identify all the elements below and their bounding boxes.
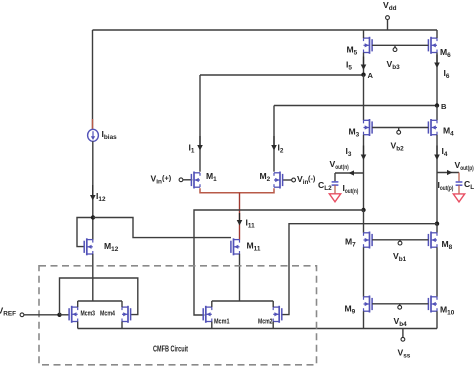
node B (435, 103, 439, 107)
transistor M7 (364, 232, 373, 249)
wire gate bar M5-M6 (372, 44, 428, 46)
label Vdd (383, 0, 397, 12)
label Iout(n) (343, 183, 359, 195)
node Vout(n) (361, 208, 365, 212)
terminal Vb3 (393, 45, 397, 51)
current arrow I6 (434, 55, 440, 69)
transistor M2 (274, 172, 283, 189)
label M11 (247, 241, 261, 253)
capacitor C_L2 (332, 182, 339, 185)
wire M6 to node B (436, 53, 438, 106)
transistor M1 (191, 172, 200, 189)
transistor Mcm2 (273, 306, 282, 323)
wire M6 drain stub (436, 30, 438, 38)
svg-text:Mcm2: Mcm2 (258, 319, 273, 326)
transistor M8 (428, 232, 437, 249)
wire Mcm1-2 drain bar (212, 301, 273, 307)
label A (368, 71, 374, 80)
terminal Vb4 (398, 304, 402, 309)
svg-text:(+): (+) (162, 174, 172, 183)
label I1 (189, 143, 195, 155)
current arrow I4 (434, 146, 440, 161)
ground C_L1 (453, 194, 464, 202)
current source Ibias (88, 129, 99, 141)
terminal Vin+ (179, 178, 192, 182)
transistor M5 (364, 37, 373, 54)
label M8 (442, 239, 453, 251)
label I2 (278, 143, 284, 155)
node Vref junction (57, 313, 61, 317)
label Vb1 (393, 251, 407, 263)
wire Vref loop to Mcm4 gate (60, 278, 138, 315)
wire bottom rail (78, 328, 437, 330)
wire M9 source (363, 311, 365, 328)
wire Vout(n) branch (335, 172, 364, 174)
wire Vout(p) to CMFB (281, 224, 437, 315)
label M12 (104, 241, 119, 253)
wire M4 to Vout(p) (436, 135, 438, 224)
svg-text:Mcm3: Mcm3 (81, 311, 96, 318)
wire Mcm4 source stub (121, 322, 123, 329)
svg-text:Mcm1: Mcm1 (214, 319, 230, 326)
wire M10 source (436, 311, 438, 328)
label I6 (444, 68, 450, 80)
svg-text:A: A (368, 71, 374, 80)
power rail Vdd wire (93, 29, 438, 31)
label Vref (0, 306, 16, 318)
wire M1 drain (199, 75, 201, 172)
current arrow I2 (271, 136, 277, 151)
label Vin- (297, 174, 316, 186)
wire M7-M9 (363, 247, 365, 297)
label B (441, 102, 447, 111)
current arrow I12 (90, 185, 96, 201)
label Vout(p) (455, 160, 474, 172)
label I12 (96, 191, 106, 203)
wire Mcm1 source stub (211, 322, 213, 329)
current arrow I3 (361, 146, 367, 161)
terminal Vin- (283, 178, 296, 182)
wire Mcm3 source stub (77, 322, 79, 329)
transistor M12 (84, 238, 93, 255)
wire Vout(n) to CMFB (194, 210, 364, 315)
wire junction to M11 gate (93, 218, 231, 238)
wire C_L2 top stub (334, 173, 336, 181)
terminal Vref (20, 313, 59, 317)
wire M8-M10 (436, 247, 438, 297)
label M2 (260, 171, 271, 183)
label I3 (346, 146, 352, 158)
label I5 (346, 60, 352, 72)
transistor Mcm4 (122, 306, 131, 323)
capacitor C_L1 (456, 182, 463, 185)
label Vb4 (394, 316, 408, 328)
label M6 (440, 47, 451, 59)
wire gate bar M3-M4 (372, 127, 428, 129)
node bias-M12 junction (91, 215, 95, 219)
svg-text:B: B (441, 102, 447, 111)
svg-text:Mcm4: Mcm4 (100, 311, 115, 318)
wire M5 to node A (363, 53, 365, 75)
wire M11 source (239, 254, 241, 301)
label M5 (347, 45, 358, 57)
transistor M3 (364, 119, 373, 136)
wire Vout(p) branch (437, 172, 459, 174)
label M10 (440, 305, 455, 317)
terminal Vb2 (397, 128, 401, 135)
label M1 (206, 171, 217, 183)
wire Mcm2 source stub (272, 322, 274, 329)
label Mcm1 (214, 319, 230, 326)
label M3 (349, 127, 360, 139)
transistor M9 (364, 296, 373, 313)
label Mcm2 (258, 319, 273, 326)
transistor Mcm3 (69, 306, 78, 323)
current arrow Iout(n) direction (349, 170, 355, 175)
svg-text:(-): (-) (308, 174, 316, 183)
wire B to M4 (436, 106, 438, 121)
node Vout(p) (435, 222, 439, 226)
transistor M4 (428, 119, 437, 136)
terminal Vb1 (398, 240, 402, 245)
wire M12 source to CMFB bar (92, 254, 94, 301)
terminal Vdd (386, 16, 390, 30)
ground C_L2 (329, 194, 340, 202)
label M4 (443, 126, 454, 138)
label C_L1 (464, 179, 474, 191)
wire Vref to Mcm3 gate (60, 314, 70, 316)
label Mcm4 (100, 311, 115, 318)
wire gate bar M7-M8 (372, 239, 428, 241)
wire Vout(p) to M8 (436, 224, 438, 233)
wire M5 drain stub (363, 30, 365, 38)
current arrow Iout(p) direction (447, 170, 453, 175)
wire M3 to Vout(n) (363, 135, 365, 210)
wire Mcm3-4 drain bar (78, 301, 122, 307)
wire M2 drain (273, 106, 275, 172)
wire node B horizontal (274, 105, 437, 107)
transistor M10 (428, 296, 437, 313)
label CMFB Circuit (153, 345, 188, 354)
label Vin+ (151, 174, 172, 186)
current arrow I1 (197, 136, 203, 151)
label Mcm3 (81, 311, 96, 318)
label C_L2 (318, 180, 332, 192)
wire tail current I11 (239, 193, 241, 240)
wire node A horizontal (200, 74, 364, 76)
label Vss (398, 348, 411, 360)
transistor M6 (428, 37, 437, 54)
label I11 (246, 218, 256, 230)
label Vb3 (387, 59, 401, 71)
current arrow I5 (361, 57, 367, 71)
wire source coupling (200, 188, 274, 192)
label M7 (345, 237, 356, 249)
label Vout(n) (330, 159, 349, 171)
label I4 (442, 146, 448, 158)
CMFB dashed box (39, 266, 317, 365)
wire bias salmon segment (92, 119, 94, 129)
wire A to M3 (363, 75, 365, 121)
transistor M11 (231, 238, 240, 255)
wire M12 diode loop (77, 218, 91, 247)
label Iout(p) (438, 180, 454, 192)
current arrow I11 (237, 213, 243, 226)
terminal Vss (401, 329, 405, 342)
label Ibias (102, 129, 118, 141)
label Vb2 (391, 141, 405, 153)
wire C_L2 bottom stub (334, 185, 336, 194)
wire bias branch upper (92, 30, 94, 129)
wire bias branch lower (92, 141, 94, 240)
node A (361, 73, 365, 77)
svg-text:CMFB Circuit: CMFB Circuit (153, 345, 188, 354)
wire Vout(n) to M7 (363, 210, 365, 233)
wire C_L1 top stub (458, 173, 460, 182)
label M9 (345, 304, 356, 316)
wire C_L1 bottom stub (458, 185, 460, 194)
wire gate bar M9-M10 (372, 303, 428, 305)
transistor Mcm1 (203, 306, 212, 323)
